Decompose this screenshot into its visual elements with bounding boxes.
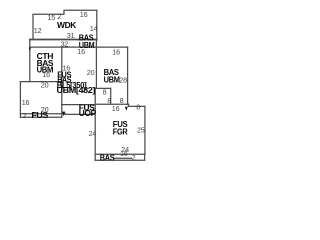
wire small box top (95, 87, 111, 89)
wire long vertical middle (95, 40, 97, 88)
svg-text:8: 8 (136, 103, 140, 112)
arrow marker at CTH top-left (29, 48, 32, 52)
svg-text:UOP: UOP (79, 109, 96, 118)
svg-text:UBM: UBM (37, 66, 54, 75)
wire bottom strip bottom (95, 159, 144, 161)
svg-text:8: 8 (107, 96, 111, 105)
wire left outer vertical (19, 82, 21, 118)
svg-text:FGR: FGR (113, 128, 128, 137)
svg-text:28: 28 (119, 75, 127, 84)
wire FUS strip bottom (20, 116, 61, 118)
wire left vertical CTH edge (29, 40, 31, 82)
arrow marker at strip right (62, 112, 65, 117)
svg-text:25: 25 (137, 126, 145, 135)
wire long vertical lower (94, 88, 96, 160)
svg-text:WDK: WDK (57, 21, 77, 30)
wire FUS/UOP box bottom (66, 113, 96, 115)
wire long vertical WDK right (96, 10, 98, 40)
svg-text:8: 8 (120, 96, 124, 105)
wire upper horizontal at y47 (30, 46, 128, 48)
svg-text:24: 24 (89, 129, 97, 138)
svg-text:2: 2 (23, 111, 27, 120)
svg-text:UBM: UBM (79, 41, 95, 50)
wire horizontal y104.2 (95, 103, 128, 105)
svg-text:16: 16 (22, 98, 30, 107)
wire step vertical (128, 104, 130, 106)
wire bottom strip right (144, 154, 146, 160)
svg-text:32: 32 (61, 40, 69, 49)
svg-text:14: 14 (90, 24, 98, 33)
wire right vertical x127.6 (127, 47, 129, 104)
wire FUS strip top (20, 113, 61, 115)
wire dash after BAS bottom (115, 157, 132, 159)
wire horizontal y81.6 (20, 81, 61, 83)
svg-text:16: 16 (112, 104, 120, 113)
svg-text:UBM: UBM (104, 75, 121, 84)
svg-text:16: 16 (80, 10, 88, 19)
svg-text:8: 8 (103, 87, 107, 96)
wire WDK bottom / main block top edge (30, 39, 97, 41)
wire FGR bottom edge (95, 153, 145, 155)
svg-text:15: 15 (48, 13, 56, 22)
svg-text:2: 2 (57, 12, 61, 21)
svg-text:UBM[482]: UBM[482] (57, 86, 96, 95)
wood deck WDK outline (33, 10, 97, 39)
wire FGR right edge (144, 106, 146, 154)
arrow marker below FGR top (125, 107, 128, 111)
svg-text:12: 12 (34, 26, 42, 35)
svg-text:2: 2 (132, 153, 136, 162)
svg-text:FUS: FUS (31, 111, 48, 120)
svg-text:16: 16 (112, 48, 120, 57)
wire interior vertical x61.8 (61, 47, 63, 117)
svg-text:16: 16 (120, 149, 128, 158)
wire dim line to arrow (62, 113, 66, 115)
wire FGR top edge (129, 105, 145, 107)
svg-text:BAS: BAS (100, 153, 115, 162)
wire FUS/UOP box top (62, 104, 95, 106)
svg-text:20: 20 (41, 81, 49, 90)
svg-text:20: 20 (87, 68, 95, 77)
wire small box right (110, 88, 112, 104)
